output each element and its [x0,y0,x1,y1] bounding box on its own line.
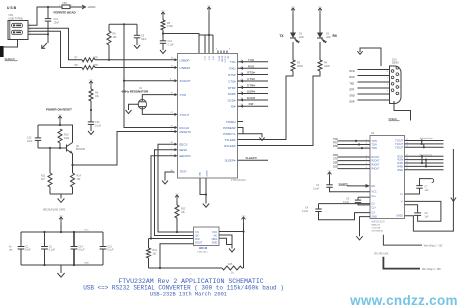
wire U3 GND arrow [360,217,371,236]
svg-text:Receive Data: Receive Data [420,153,433,156]
svg-text:V-: V- [401,200,403,203]
net +VCC arrow [161,12,165,14]
wire SLEEP# net [238,159,269,161]
wire U3 GND2 rail [405,149,454,231]
wire off-page arrow to CN2 top [360,48,381,66]
bottom rail with resistor R15 [149,267,223,269]
svg-text:RTS#: RTS# [228,73,236,77]
svg-text:RESET#: RESET# [180,130,192,134]
svg-text:4k7: 4k7 [41,178,46,181]
svg-text:AGND: AGND [206,170,209,177]
svg-text:USBDP: USBDP [180,58,190,62]
wire U2 NC pin [219,235,232,245]
capacitor C13 [160,40,166,42]
svg-text:GND2: GND2 [396,215,403,218]
svg-text:+VCC: +VCC [58,215,64,217]
svg-text:FT8U232AM: FT8U232AM [231,178,246,182]
svg-text:1uF: 1uF [425,189,430,192]
wire net DSR# [238,93,269,95]
svg-text:27R: 27R [94,56,99,59]
wire VCC pin row [219,231,244,233]
svg-text:470R: 470R [167,25,173,28]
svg-text:0.1uF: 0.1uF [168,43,175,46]
svg-text:DCD: DCD [350,71,355,73]
op IC U1 FT8U232AM body [178,54,238,179]
connector CN1 USB type B body [8,21,28,40]
decoupling top rail [21,231,103,233]
ground [42,43,47,48]
svg-text:+VCC: +VCC [88,5,97,9]
svg-text:PWRCTL: PWRCTL [223,132,236,136]
net +VCC arrow eeprom [242,217,246,219]
wire XTOUT [142,107,174,115]
svg-text:EEDATA: EEDATA [180,154,191,158]
svg-text:Transmit Data: Transmit Data [420,137,434,140]
LED D1 TX [292,14,294,28]
svg-text:GND: GND [212,242,218,245]
ground [164,177,166,181]
svg-text:SHIELD: SHIELD [5,57,15,61]
capacitor C1 [20,232,22,246]
svg-text:FB1: FB1 [63,2,68,5]
svg-text:0.1uF: 0.1uF [302,210,309,213]
svg-text:C1-: C1- [372,203,376,206]
svg-text:DECOUPLING CAPS: DECOUPLING CAPS [43,209,66,212]
svg-text:+VCC: +VCC [206,5,212,7]
svg-text:220R: 220R [297,65,303,68]
wire CN2 GND [358,93,390,95]
capacitor C2 [44,232,46,246]
ground [60,265,62,268]
wire CN1 pin2 to R7 [31,28,82,60]
svg-text:DSR#: DSR# [247,90,255,94]
svg-text:9: 9 [387,90,388,92]
wire EECS to EEPROM CS [158,144,194,232]
svg-text:7: 7 [387,78,388,80]
svg-text:5: 5 [399,94,400,96]
svg-text:USB-TYPEB: USB-TYPEB [9,17,24,20]
wire CN2 DCD [358,69,390,71]
svg-text:www.cndzz.com: www.cndzz.com [349,293,458,308]
junction [47,6,49,8]
wire net RI# [238,105,269,107]
capacitor C3 [329,178,331,185]
svg-text:2: 2 [399,74,400,76]
svg-text:VCC: VCC [84,230,89,232]
capacitor C4 loop [319,203,371,205]
svg-text:3: 3 [399,81,400,83]
wire net RXD [238,67,269,69]
wire CN2 DTR [358,87,390,89]
svg-text:RXD: RXD [333,154,338,157]
wire R8 to USBDM pin [95,67,175,69]
resistor R8 [82,66,95,70]
svg-text:XTIN: XTIN [180,93,187,97]
svg-text:( 93LC46 ): ( 93LC46 ) [197,251,208,253]
wire RXLED# to R4 [238,71,321,146]
svg-text:CTS: CTS [333,158,338,161]
svg-text:2k2: 2k2 [153,252,158,255]
svg-text:+VCC: +VCC [290,6,296,8]
resistor R13 [148,239,150,249]
connector CN2 DB9 shell [390,66,402,104]
svg-text:4: 4 [399,87,400,89]
svg-text:RXLED#: RXLED# [224,144,236,148]
svg-text:Wire Wrap 1 - 232: Wire Wrap 1 - 232 [424,244,443,247]
wire to ground [50,193,73,195]
svg-text:GND: GND [84,263,89,265]
svg-text:SLEEP#: SLEEP# [245,156,257,160]
svg-text:DTR#: DTR# [247,84,255,88]
svg-text:10nF: 10nF [27,140,33,143]
capacitor C7 [405,188,420,194]
svg-text:VCC: VCC [208,56,210,61]
wire RTS to U3 [338,144,371,146]
svg-text:FERRITE BEAD: FERRITE BEAD [54,11,77,15]
svg-text:TXD: TXD [333,138,338,141]
svg-text:SLEEP#: SLEEP# [339,183,349,186]
net +VCC arrow decoupling [59,217,63,219]
capacitor C9 [136,24,138,35]
resistor R3 [292,42,294,60]
svg-text:DOUT: DOUT [195,242,203,245]
svg-text:DSR: DSR [333,162,338,165]
wire CN2 TXD [358,81,390,83]
svg-text:DSR: DSR [350,102,355,104]
net +VCC arrow [89,81,93,83]
CN2 pins [396,67,399,70]
wire PWREN stub [238,128,244,134]
capacitor C12 [37,125,39,138]
EEPROM U2 93C46 body [194,227,220,246]
wire TEST pin to ground [165,172,175,177]
svg-text:CN2: CN2 [392,60,397,62]
junction [123,23,125,25]
svg-text:PWREN#: PWREN# [223,126,236,130]
LED D2 RX [319,14,321,28]
wire DTR to U3 [338,147,371,149]
svg-text:T2IN: T2IN [372,144,377,147]
svg-text:0.1uF: 0.1uF [78,249,85,252]
svg-text:RXD: RXD [229,67,235,71]
wire TXDEN stub [238,121,244,123]
svg-text:LED: LED [299,36,304,39]
net +VCC arrow [207,7,211,9]
wire RXD from U3 [338,156,371,158]
wire net RTS# [238,74,269,76]
svg-text:VCCIO: VCCIO [224,56,226,63]
svg-text:VCC: VCC [372,191,377,194]
wire emitter to reset node [72,154,74,166]
ground arrow on rail [451,198,456,202]
wire FB1 to +VCC [70,6,84,8]
chip top pin stubs [217,51,219,54]
net +VCC arrow [58,116,62,118]
wire shield to CN1 [4,40,18,48]
svg-text:1uF: 1uF [425,216,430,219]
svg-text:DTR#: DTR# [228,86,236,90]
wire DIN row left extension [149,238,152,240]
resistor R9 [108,24,110,31]
wire EEDATA to EEPROM DIN [151,156,194,239]
wire DSR from U3 [338,164,371,166]
svg-text:POWER-ON RESET: POWER-ON RESET [46,108,72,112]
svg-text:R4OUT: R4OUT [372,168,381,171]
svg-text:R5IN: R5IN [398,169,404,172]
svg-text:0.1uF: 0.1uF [107,249,114,252]
svg-text:27R: 27R [94,64,99,67]
resistor R7 [82,58,95,62]
wire XTIN [142,95,174,101]
shield bar [0,46,4,57]
svg-text:0.1uF: 0.1uF [343,201,350,204]
svg-text:TXD: TXD [350,84,355,86]
wire R7 to USBDP pin [95,59,175,61]
capacitor C8 loop [405,201,441,221]
svg-text:1: 1 [399,68,400,70]
svg-text:RTS#: RTS# [247,71,255,75]
svg-text:DCD: DCD [333,166,338,169]
wire CTS from U3 [338,160,371,162]
svg-text:SLEEP#: SLEEP# [225,159,236,163]
svg-text:MAX213: MAX213 [372,223,381,226]
capacitor C10 [88,121,94,123]
ground [162,46,164,50]
wire net TXD [238,61,269,63]
capacitor C5 loop [358,196,370,198]
wire jumper option 2 [383,257,420,269]
resistor R6 [90,87,92,89]
wire to chip VCC pin [163,34,199,54]
svg-text:DTR: DTR [350,90,355,92]
svg-text:DB9M: DB9M [392,63,398,65]
svg-text:MAX213CAI: MAX213CAI [372,220,385,223]
svg-text:TXD: TXD [248,58,255,62]
junction [150,237,152,239]
svg-text:BC547B: BC547B [76,148,85,151]
svg-text:RXD: RXD [350,77,355,79]
CN1 pin stubs [28,24,31,26]
svg-text:T1IN: T1IN [372,140,377,143]
svg-text:SP213ECA: SP213ECA [372,229,384,232]
resistor R11 [49,148,51,173]
svg-text:DTR: DTR [333,145,338,148]
svg-text:AGND: AGND [221,56,224,63]
wire 3V3OUT pin [124,80,175,82]
wire GND pins [200,178,206,195]
transistor Q1 BC547 [66,145,68,152]
svg-text:T3IN: T3IN [372,147,377,150]
wire VCC node [59,122,61,125]
wire CN2 shield [394,101,411,121]
wire base line [38,147,67,149]
junction [47,33,49,35]
svg-text:EECS: EECS [180,142,188,146]
svg-text:EESK: EESK [180,148,188,152]
svg-text:NC: NC [227,56,229,60]
resistor R5 [162,18,164,20]
resistor R10 [58,129,62,143]
ground [90,127,92,131]
svg-text:0.1uF: 0.1uF [313,187,320,190]
svg-text:+VCC: +VCC [174,193,180,195]
svg-text:10nF: 10nF [25,249,31,252]
svg-text:DCD#: DCD# [228,98,236,102]
wire resonator mid to ground [129,104,140,106]
svg-text:+VCC: +VCC [241,215,247,217]
svg-text:1k5: 1k5 [113,36,118,39]
svg-text:DCD#: DCD# [247,96,255,100]
net +VCC arrow [291,8,295,10]
net +VCC arrow [318,8,322,10]
svg-text:220R: 220R [324,65,330,68]
wire VCC to chip top pins [208,13,210,35]
svg-text:CTS#: CTS# [247,77,255,81]
svg-text:+VCC: +VCC [327,170,333,172]
svg-text:93C46: 93C46 [199,246,208,250]
svg-text:T3OUT: T3OUT [395,146,403,149]
ferrite bead FB1 [62,5,70,9]
net +VCC arrow U3 [328,172,332,174]
wire R5 to C13 [162,30,164,41]
svg-text:Wire Wrap 2 - 485: Wire Wrap 2 - 485 [422,268,441,271]
decoupling bottom rail [21,264,103,266]
wire R6 to C10 [90,101,92,122]
right tangle verticals [421,141,423,144]
junction [162,32,164,34]
svg-text:R2OUT: R2OUT [372,160,381,163]
resistor R12 pullup [175,195,179,197]
wire DCD from U3 [338,168,371,170]
svg-text:8: 8 [387,84,388,86]
svg-text:DSR#: DSR# [228,92,236,96]
svg-text:3V3OUT: 3V3OUT [180,79,191,83]
svg-text:CTS#: CTS# [228,79,236,83]
svg-text:LED: LED [326,36,331,39]
resonator X1 [138,99,146,109]
wire U2 ORG pin [219,238,232,244]
svg-text:XTOUT: XTOUT [180,113,190,117]
wire reset output to RESET# pin [73,132,175,166]
svg-text:33nF: 33nF [141,38,147,41]
svg-text:+VCC: +VCC [317,6,323,8]
wire CN1 pin3 to R8 [31,31,82,67]
svg-text:TEST: TEST [180,169,188,173]
svg-text:R15: R15 [228,263,233,266]
wire EESK to EEPROM SK [155,150,194,236]
junction [108,59,110,61]
wire TXLED# to R3 [238,71,294,140]
svg-text:GND: GND [372,215,378,218]
wire CN2 DSR [358,99,390,101]
svg-text:VCC: VCC [203,56,205,61]
wire CN1 pin1 to ferrite [31,7,62,25]
wire jumper option 1 [383,235,422,245]
svg-text:C2+: C2+ [372,207,377,210]
svg-text:GND: GND [350,96,355,98]
svg-text:RXD: RXD [248,64,255,68]
wire 3V3OUT node to RCCLK pin [124,24,175,127]
svg-text:C1+: C1+ [372,195,377,198]
svg-text:0.1uF: 0.1uF [49,249,56,252]
svg-text:+VCC: +VCC [160,10,166,12]
svg-text:TXD: TXD [230,60,236,64]
svg-text:GND: GND [200,171,202,176]
svg-text:RTS: RTS [333,142,338,145]
svg-text:10nF: 10nF [54,21,60,24]
U3 right output wires [405,140,444,142]
svg-text:0.1uF: 0.1uF [95,124,102,127]
ground [231,245,233,249]
svg-text:VCC: VCC [212,56,214,61]
wire DOUT down to rail [160,244,194,268]
svg-text:R1OUT: R1OUT [372,156,381,159]
svg-text:USB <=> RS232 SERIAL CONVERTER: USB <=> RS232 SERIAL CONVERTER ( 300 to … [83,284,284,291]
svg-text:USB-232B 13th March 2001: USB-232B 13th March 2001 [150,292,227,298]
net +VCC arrow [82,5,86,9]
svg-text:USBDM: USBDM [180,66,191,70]
svg-text:TXDEN: TXDEN [226,120,236,124]
svg-text:TXLED#: TXLED# [225,138,236,142]
wire CN1 pin4 to gnd [31,33,48,35]
svg-text:100k: 100k [64,137,70,140]
svg-text:RI#: RI# [231,105,236,109]
svg-text:U S B: U S B [7,6,17,10]
wire net CTS# [238,80,269,82]
svg-text:RI#: RI# [249,102,254,106]
wire TXD to U3 [338,140,371,142]
svg-text:*: * [190,274,191,277]
capacitor C15 [102,232,104,246]
wire CN2 RXD [358,75,390,77]
ground [261,134,263,137]
wire net DTR# [238,87,269,89]
capacitor C11 [47,7,49,18]
svg-text:+VCC: +VCC [57,114,63,116]
ground [60,194,62,199]
svg-text:C2-: C2- [372,211,376,214]
capacitor C14 [73,232,75,246]
resistor R4 [319,42,321,60]
wire PWRCTL to arrow [238,134,263,137]
svg-text:6MHz RESONATOR: 6MHz RESONATOR [122,90,149,94]
ground [136,41,138,45]
ground [128,106,130,110]
svg-text:JP1-JP2 LINK: JP1-JP2 LINK [374,254,389,256]
wire net DCD# [238,99,269,101]
IC U3 MAX213 body [370,136,405,219]
svg-text:+VCC: +VCC [88,79,94,81]
wire node to cap [109,23,137,25]
svg-text:R3OUT: R3OUT [372,164,381,167]
svg-text:6: 6 [387,71,388,73]
resistor R14 [72,165,74,173]
svg-text:EN: EN [372,185,376,188]
ground [205,199,207,204]
svg-text:AVCC: AVCC [218,56,221,62]
svg-text:LT1137A: LT1137A [372,226,381,229]
